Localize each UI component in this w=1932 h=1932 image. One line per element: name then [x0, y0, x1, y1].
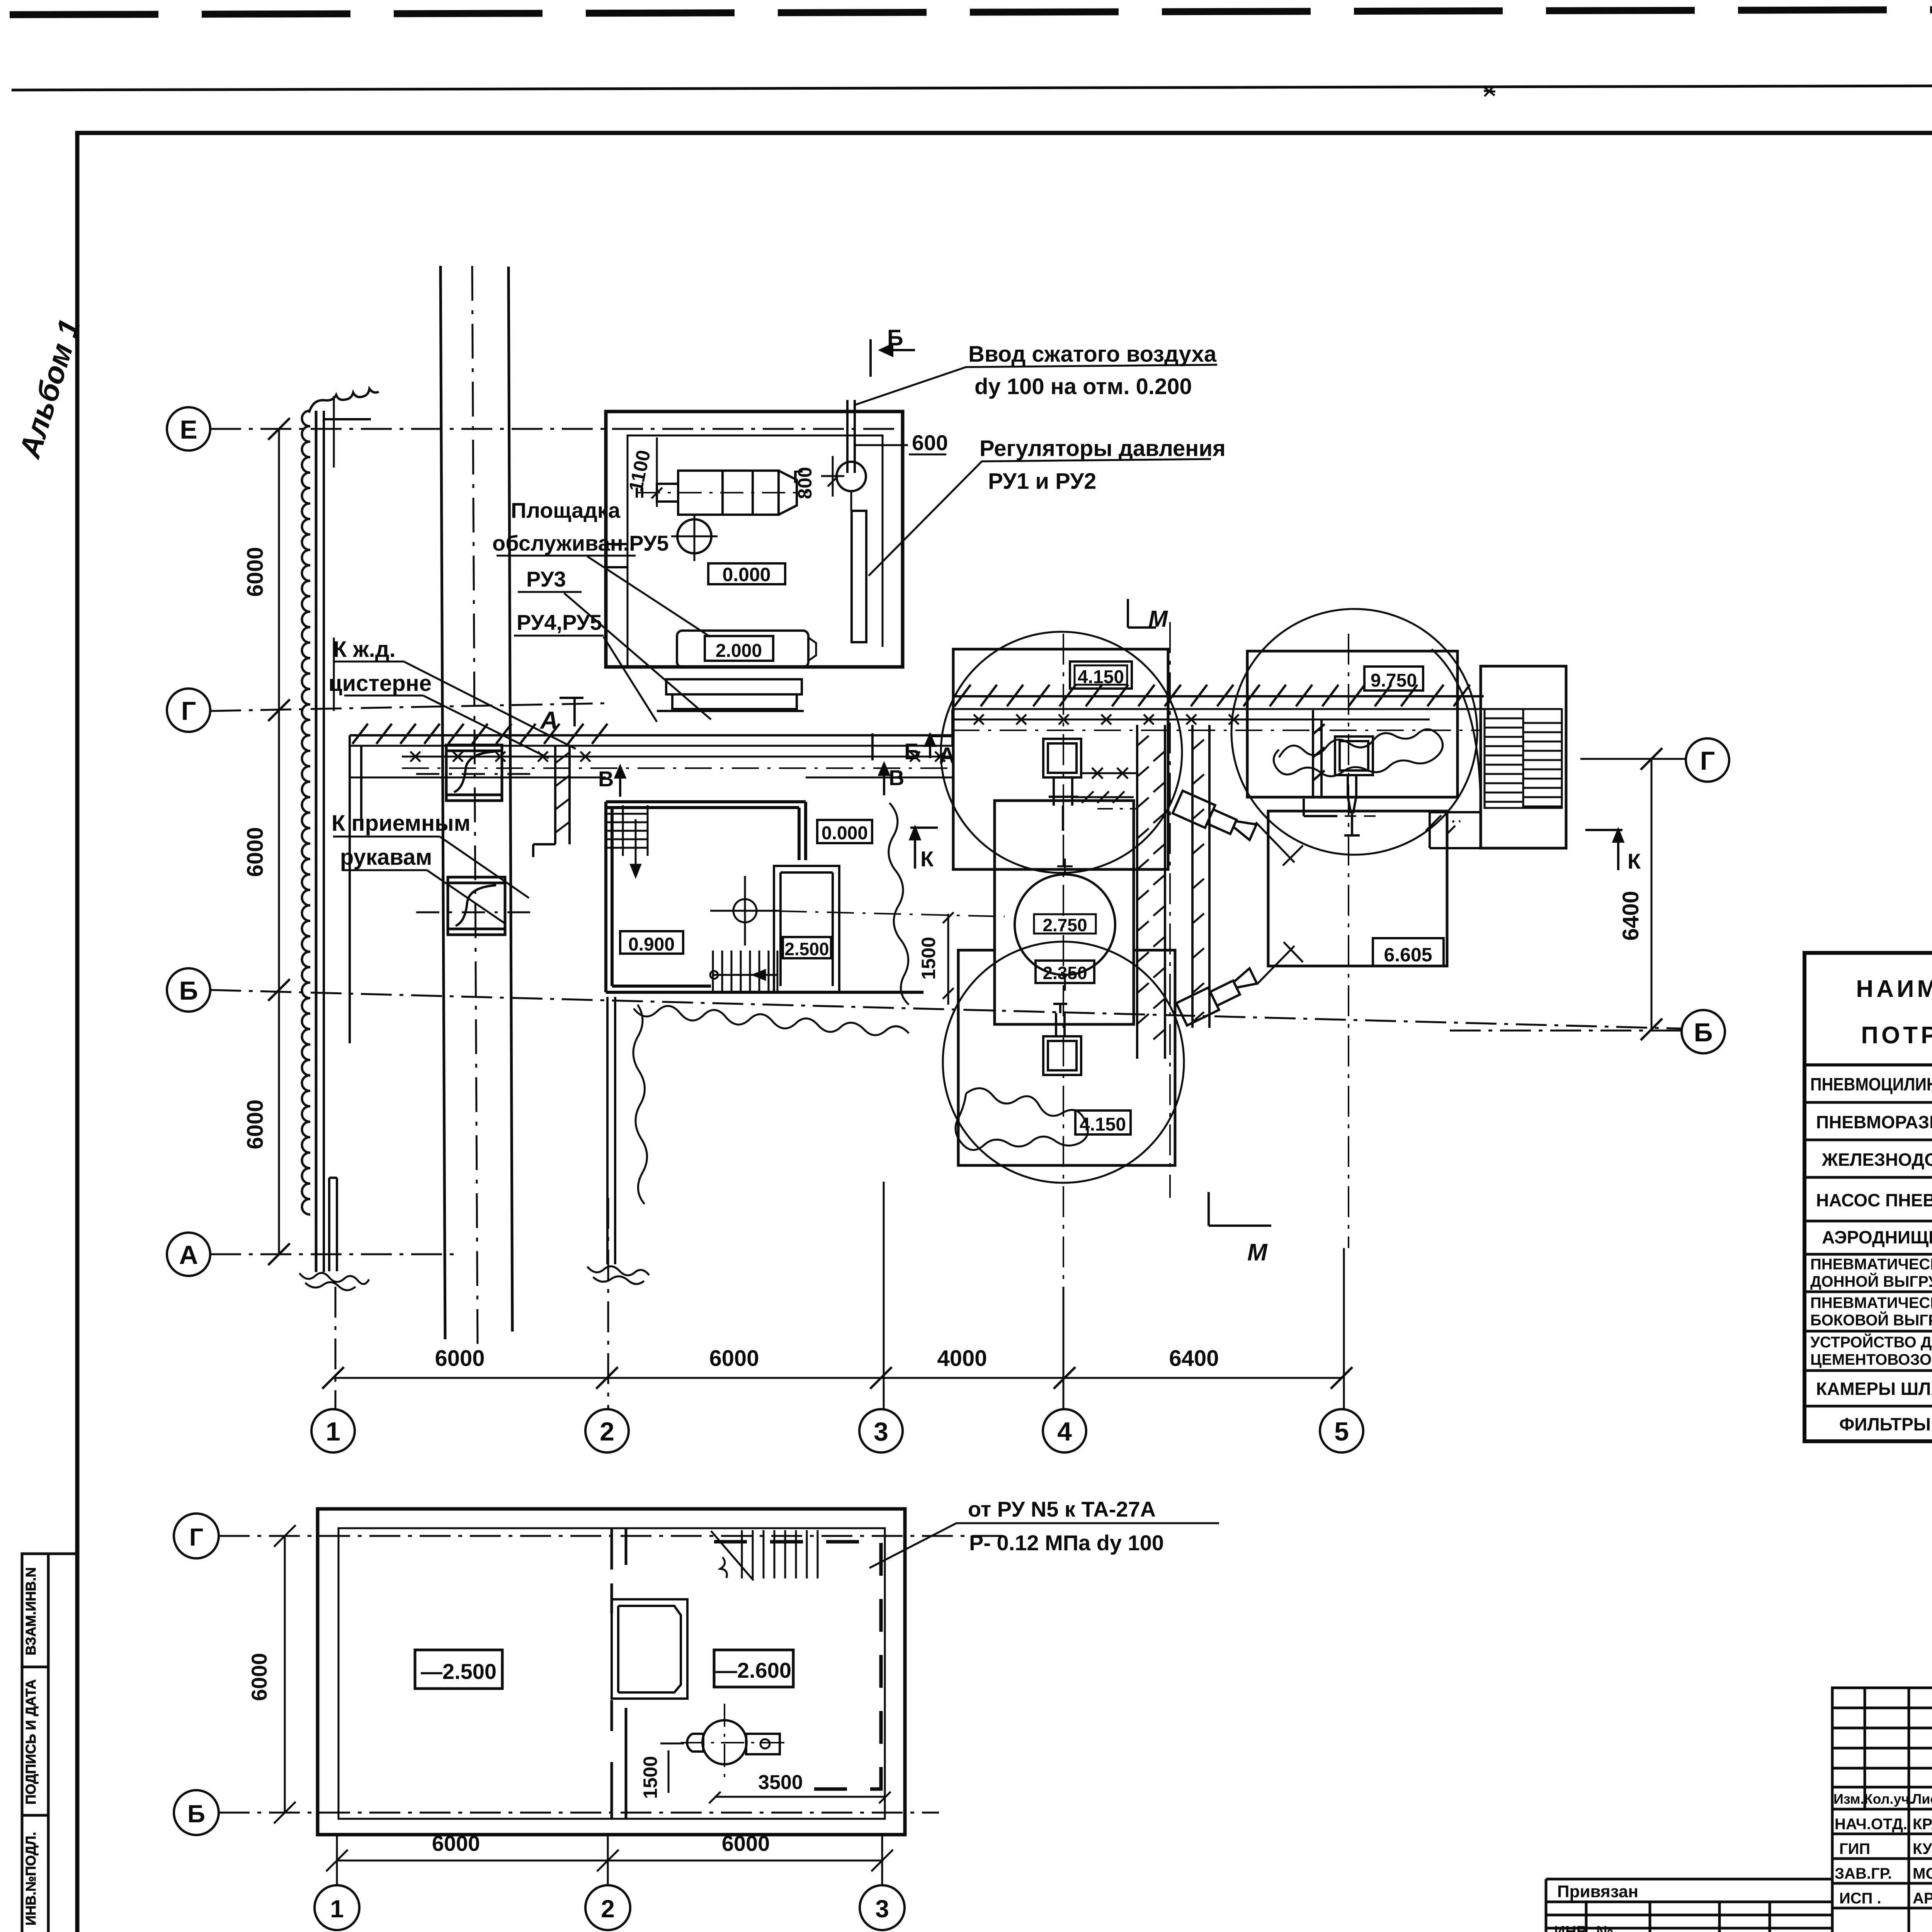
small plan axis G line	[219, 1535, 1005, 1537]
svg-text:ПНЕВМОЦИЛИНДРЫ ПРИЕМНОГО РУКАВ: ПНЕВМОЦИЛИНДРЫ ПРИЕМНОГО РУКАВА	[1810, 1074, 1932, 1094]
band dash-dot pipe	[952, 730, 1480, 731]
label 4.150 top	[1070, 662, 1132, 689]
trench wall lines	[315, 411, 318, 1272]
silo circle top	[941, 632, 1182, 873]
svg-text:2: 2	[601, 1895, 615, 1923]
revision grid	[1832, 1688, 1932, 1809]
corridor left leg	[350, 735, 361, 1043]
inlet flange circle	[837, 462, 866, 491]
scan artifact top dashed bars	[10, 8, 1932, 15]
column 4 dash-dot axis	[1063, 634, 1064, 1287]
svg-text:Изм.Кол.уч.: Изм.Кол.уч.	[1833, 1791, 1913, 1807]
svg-text:4000: 4000	[937, 1346, 987, 1371]
privyazan block	[1546, 1879, 1832, 1932]
label 9.750	[1364, 667, 1423, 690]
label -2.500	[415, 1650, 502, 1689]
section M mark top	[1128, 599, 1156, 628]
small plan column circles	[315, 1885, 359, 1930]
label -2.600	[714, 1650, 793, 1687]
corridor top line with hatch	[350, 734, 952, 736]
small plan inner wall	[338, 1528, 885, 1819]
silo circle bottom	[943, 942, 1184, 1183]
section K mark lower	[910, 828, 938, 869]
section M mark bottom	[1209, 1192, 1271, 1226]
column axis stubs to circles	[335, 1198, 608, 1409]
axis circle G right	[1686, 738, 1729, 782]
axis G dash-dot line	[210, 703, 607, 711]
hopper pit	[612, 1599, 687, 1699]
svg-text:6000: 6000	[432, 1831, 480, 1855]
dim slash ticks left	[268, 418, 290, 1265]
table header lines	[1804, 1005, 1932, 1065]
svg-text:АРУТЮНЯНЦ: АРУТЮНЯНЦ	[1913, 1890, 1932, 1907]
leader ot RU5	[869, 1523, 1219, 1568]
svg-text:6000: 6000	[247, 1653, 271, 1701]
table row lines	[1804, 1102, 1932, 1406]
svg-text:М: М	[1148, 606, 1168, 632]
svg-text:ГИП: ГИП	[1839, 1840, 1870, 1857]
lower building walls	[606, 802, 923, 992]
section M-M cut dash-dot	[1169, 622, 1171, 1198]
receiving box bottom axis	[416, 912, 530, 913]
bottom dim ticks	[322, 1367, 1352, 1389]
door swing arc	[1432, 649, 1481, 808]
svg-text:2.000: 2.000	[716, 641, 762, 661]
svg-text:Г: Г	[1700, 746, 1715, 776]
silo rect 4.150 bottom	[958, 950, 1175, 1165]
svg-text:—2.500: —2.500	[421, 1659, 497, 1684]
svg-text:К приемным: К приемным	[332, 811, 471, 836]
stairs upper left	[607, 805, 648, 876]
section V mark right	[879, 764, 889, 795]
svg-text:Привязан: Привязан	[1557, 1882, 1638, 1901]
svg-text:АЭРОДНИЩЕ: АЭРОДНИЩЕ	[1822, 1227, 1932, 1247]
axis B right dash-dot stub	[1449, 1030, 1682, 1032]
small plan column stubs	[337, 1835, 882, 1885]
svg-text:рукавам: рукавам	[340, 845, 432, 870]
section K mark right	[1585, 830, 1623, 870]
pump axis target	[733, 899, 757, 922]
svg-text:ЖЕЛЕЗНОДОРОЖНАЯ ЦИСТЕРНА: ЖЕЛЕЗНОДОРОЖНАЯ ЦИСТЕРНА	[1821, 1150, 1932, 1170]
svg-text:Р- 0.12 МПа dy 100: Р- 0.12 МПа dy 100	[969, 1531, 1164, 1555]
trench bottom tear wave	[299, 1273, 369, 1290]
svg-text:2: 2	[600, 1417, 614, 1446]
leader text ploshchadka	[492, 498, 669, 555]
staff rows grid	[1832, 1809, 1932, 1932]
filter unit top	[1043, 739, 1081, 831]
left vertical dimension line	[278, 429, 280, 1254]
leader text vvod szhatogo vozdukha	[968, 342, 1217, 399]
silo circle right	[1231, 609, 1477, 855]
bottom dimension chain line	[333, 1377, 1342, 1379]
lower left wavy line	[633, 1005, 647, 1204]
svg-text:ВЗАМ.ИНВ.N: ВЗАМ.ИНВ.N	[23, 1567, 39, 1655]
leader to rail tank	[404, 662, 576, 758]
receiving hopper box top	[446, 745, 502, 801]
axis circle G left	[167, 689, 210, 732]
section B mark bottom	[872, 733, 900, 760]
svg-text:600: 600	[912, 430, 948, 455]
louvre slats	[1485, 709, 1562, 808]
svg-text:3: 3	[875, 1895, 889, 1923]
svg-text:0.900: 0.900	[628, 934, 675, 955]
svg-text:2.350: 2.350	[1043, 963, 1087, 983]
axis A dash-dot line	[210, 1253, 458, 1255]
svg-text:ИНВ.№ПОДЛ.: ИНВ.№ПОДЛ.	[23, 1832, 39, 1925]
svg-text:Г: Г	[189, 1523, 203, 1551]
middle tank circle	[1015, 874, 1115, 975]
small plan axis B line	[219, 1812, 939, 1814]
filter unit right	[1335, 736, 1373, 835]
small plan middle wall	[612, 1529, 626, 1819]
elevation label 0.000	[708, 563, 785, 584]
cement blob right silo	[1274, 729, 1442, 776]
dim 1500 small plan	[660, 1743, 684, 1793]
svg-text:dy 100 на отм. 0.200: dy 100 на отм. 0.200	[975, 374, 1192, 399]
svg-text:НАИМЕНОВАНИЕ: НАИМЕНОВАНИЕ	[1856, 976, 1932, 1002]
svg-text:0.000: 0.000	[722, 564, 770, 585]
compressor centerline	[637, 492, 808, 493]
hatched line below filter	[1074, 791, 1134, 803]
column circle 5	[1320, 1409, 1363, 1452]
svg-text:6000: 6000	[243, 547, 268, 597]
svg-text:обслуживан.РУ5: обслуживан.РУ5	[492, 531, 669, 555]
svg-text:6000: 6000	[722, 1831, 770, 1855]
pump TA-27A	[702, 1720, 747, 1764]
dashed pipe route 0.12	[714, 1542, 881, 1789]
section V mark left	[616, 767, 625, 797]
left stamp column	[22, 1554, 77, 1932]
svg-text:2.500: 2.500	[784, 939, 829, 959]
loader device top	[1173, 791, 1257, 846]
small asterisk mark	[1484, 86, 1495, 96]
svg-text:6000: 6000	[243, 1099, 268, 1149]
svg-text:ЗАВ.ГР.: ЗАВ.ГР.	[1835, 1865, 1892, 1882]
silo rect 4.150 top	[953, 649, 1168, 869]
svg-text:9.750: 9.750	[1371, 670, 1417, 691]
basement stairs	[711, 1530, 818, 1580]
svg-text:УСТРОЙСТВО ДЛЯ ЗАГРУЗКИ АВТО-: УСТРОЙСТВО ДЛЯ ЗАГРУЗКИ АВТО-	[1810, 1333, 1932, 1351]
svg-text:ФИЛЬТРЫ: ФИЛЬТРЫ	[1839, 1414, 1931, 1434]
svg-text:КРАВЦОВ: КРАВЦОВ	[1913, 1816, 1932, 1833]
svg-text:6400: 6400	[1618, 891, 1643, 940]
trench scallop curls	[302, 411, 310, 1214]
section A mark left	[560, 698, 583, 726]
axis circle B left	[167, 968, 210, 1012]
small plan bottom dim chain	[326, 1850, 893, 1871]
compressor unit body	[637, 471, 797, 515]
label 2.350	[1036, 961, 1094, 983]
tick 6.605 corner	[1426, 815, 1441, 831]
small plan vertical dim	[274, 1525, 296, 1823]
louvre outer rect	[1481, 666, 1566, 848]
silo rect 9.750 right	[1247, 651, 1458, 797]
corridor second line	[350, 745, 952, 747]
label 6.605	[1373, 938, 1444, 966]
svg-text:0.000: 0.000	[821, 823, 868, 844]
rect 6.605	[1268, 811, 1447, 966]
scan artifact top thin line	[12, 84, 1932, 90]
svg-text:БОКОВОЙ ВЫГРУЗКИ ПБЛ-161: БОКОВОЙ ВЫГРУЗКИ ПБЛ-161	[1810, 1311, 1932, 1329]
band elbow duct into right silo	[1304, 710, 1337, 816]
platform slabs below building	[657, 679, 804, 711]
section A mark right	[925, 733, 954, 758]
svg-text:ПОДПИСЬ И ДАТА: ПОДПИСЬ И ДАТА	[23, 1679, 39, 1804]
svg-text:1: 1	[330, 1895, 344, 1923]
svg-text:от РУ N5 к ТА-27А: от РУ N5 к ТА-27А	[968, 1497, 1156, 1521]
svg-text:6000: 6000	[709, 1346, 759, 1371]
dim 3500	[709, 1792, 891, 1803]
svg-text:Б: Б	[1694, 1018, 1713, 1047]
elevation label 2.500	[783, 937, 831, 958]
svg-text:1500: 1500	[639, 1756, 661, 1799]
leader text regulyatory davleniya	[980, 436, 1226, 494]
axis circle E	[167, 407, 210, 451]
svg-text:РУ1 и РУ2: РУ1 и РУ2	[988, 469, 1096, 494]
svg-text:Е: Е	[180, 415, 197, 444]
receiving box top axis	[416, 773, 530, 775]
label to receiving sleeves	[332, 811, 471, 870]
annex small rect	[1430, 812, 1481, 848]
filter unit bottom	[1043, 1004, 1081, 1075]
svg-text:6000: 6000	[243, 827, 268, 877]
corridor elbow up to silo band	[951, 709, 954, 746]
column circle 2	[585, 1409, 629, 1452]
pump axis dashdot right	[780, 911, 1005, 917]
svg-text:РУ3: РУ3	[526, 567, 566, 591]
table outer border	[1804, 953, 1932, 1441]
rail line right	[509, 267, 512, 1332]
column 1 axis upper stub	[333, 396, 335, 711]
svg-text:1: 1	[326, 1417, 340, 1446]
axis E dash-dot line	[210, 428, 900, 430]
svg-text:4.150: 4.150	[1078, 667, 1124, 687]
building outer wall	[606, 412, 903, 667]
svg-text:В: В	[598, 767, 614, 791]
elevation label 0.000 lower	[817, 820, 872, 843]
svg-text:Б: Б	[187, 1800, 205, 1828]
small plan axis circle B	[174, 1790, 219, 1835]
column circle 1	[311, 1409, 355, 1452]
axis circle A left	[167, 1233, 210, 1276]
svg-text:К: К	[920, 847, 934, 871]
stairs bottom	[710, 951, 777, 992]
right vertical dim 6400	[1651, 759, 1653, 1029]
axis G right line	[1580, 758, 1686, 760]
svg-text:5: 5	[1334, 1417, 1349, 1446]
svg-text:6000: 6000	[435, 1346, 485, 1371]
platform 2.000	[677, 631, 808, 667]
svg-text:Площадка: Площадка	[511, 498, 621, 522]
svg-text:А: А	[179, 1240, 198, 1270]
label to railway tank	[328, 637, 432, 696]
gallery vertical lines 1	[1137, 725, 1165, 1059]
svg-text:М: М	[1247, 1239, 1268, 1266]
lower left wall tear	[587, 1266, 649, 1284]
axis circle B right	[1682, 1010, 1725, 1053]
revision header labels	[1833, 1791, 1932, 1807]
svg-text:2.750: 2.750	[1043, 915, 1087, 935]
air inlet pipe	[847, 400, 855, 473]
corridor dash-dot pipe	[402, 767, 952, 769]
svg-text:Б: Б	[179, 976, 198, 1005]
loader device bottom	[1176, 968, 1260, 1026]
axis letters	[179, 415, 1715, 1446]
column circle 3	[859, 1409, 903, 1452]
svg-text:ПНЕВМАТИЧЕСКИЙ РАЗГРУЖАТЕЛЬ: ПНЕВМАТИЧЕСКИЙ РАЗГРУЖАТЕЛЬ	[1810, 1294, 1932, 1311]
svg-text:—2.600: —2.600	[716, 1658, 791, 1682]
track centerline dash-dot	[472, 266, 478, 1349]
svg-text:Ввод сжатого воздуха: Ввод сжатого воздуха	[968, 342, 1217, 367]
svg-text:ЦЕМЕНТОВОЗОВ: ЦЕМЕНТОВОЗОВ	[1810, 1351, 1932, 1368]
label 4.150 bottom	[1075, 1111, 1131, 1134]
band pipe with valves	[952, 719, 1430, 721]
room 2.500	[774, 866, 839, 992]
svg-text:Г: Г	[793, 467, 803, 487]
lower left wall line down	[607, 997, 615, 1264]
west wall partition stubs	[606, 544, 628, 567]
compressor flywheel circle	[677, 519, 711, 553]
svg-text:ПОТРЕБИТЕЛЕЙ: ПОТРЕБИТЕЛЕЙ	[1861, 1022, 1932, 1049]
trench top curl	[309, 389, 379, 419]
svg-text:КАМЕРЫ ШЛАНГОВОГО ЗАТВОРА: КАМЕРЫ ШЛАНГОВОГО ЗАТВОРА	[1816, 1379, 1932, 1399]
svg-text:К ж.д.: К ж.д.	[333, 637, 396, 662]
svg-text:6.605: 6.605	[1384, 944, 1432, 966]
rail line left	[440, 266, 445, 1339]
svg-text:цистерне: цистерне	[328, 671, 432, 696]
ground wavy under building	[634, 1006, 909, 1035]
gallery vertical lines 2	[1192, 725, 1209, 1028]
svg-text:6400: 6400	[1169, 1346, 1219, 1371]
svg-text:3500: 3500	[758, 1771, 803, 1794]
svg-text:ДОННОЙ ВЫГРУЗКИ ПДД- 101: ДОННОЙ ВЫГРУЗКИ ПДД- 101	[1810, 1272, 1932, 1290]
svg-text:Лист: Лист	[1912, 1791, 1932, 1807]
trench inner step line	[329, 1178, 337, 1271]
svg-text:КУЗНЕЦОВ: КУЗНЕЦОВ	[1913, 1840, 1932, 1857]
middle tank room rect	[995, 801, 1134, 1024]
svg-text:ПНЕВМАТИЧЕСКИЙ РАЗГРУЖАТЕЛЬ: ПНЕВМАТИЧЕСКИЙ РАЗГРУЖАТЕЛЬ	[1810, 1255, 1932, 1273]
small plan outer wall	[318, 1509, 905, 1835]
cement blob bottom silo	[956, 1088, 1088, 1150]
small plan axis circle G	[174, 1514, 219, 1558]
pressure regulators RU1 RU2	[852, 511, 866, 642]
svg-text:Г: Г	[181, 696, 196, 726]
receiving hopper box bottom	[448, 877, 505, 935]
corridor bottom line	[350, 777, 952, 779]
svg-text:НАСОС ПНЕВМАТИЧЕСКИЙ ТА-14Б: НАСОС ПНЕВМАТИЧЕСКИЙ ТА-14Б	[1816, 1190, 1932, 1210]
dim 600 tick	[855, 444, 908, 446]
leader to receiving sleeve	[427, 837, 529, 923]
column circle 4	[1043, 1409, 1086, 1452]
svg-text:3: 3	[874, 1417, 888, 1446]
label 2.750	[1034, 914, 1096, 934]
top hatched pipe band	[952, 695, 1484, 697]
dim 1500	[943, 912, 954, 1005]
svg-text:1500: 1500	[918, 937, 939, 980]
header name column	[1856, 976, 1932, 1049]
section B mark top	[871, 339, 915, 377]
svg-text:ИСП .: ИСП .	[1839, 1890, 1881, 1907]
svg-text:Б: Б	[887, 325, 903, 350]
svg-text:Регуляторы давления: Регуляторы давления	[980, 436, 1226, 461]
building inner wall	[628, 435, 883, 667]
table data rows	[1810, 1074, 1932, 1434]
leaders to platform	[564, 556, 711, 722]
svg-text:К: К	[1628, 849, 1641, 873]
svg-text:ПНЕВМОРАЗГРУЗЧИК ТА-27А: ПНЕВМОРАЗГРУЗЧИК ТА-27А	[1816, 1112, 1932, 1132]
corridor pipe with valves	[402, 756, 952, 758]
column 5 dash-dot axis	[1348, 634, 1349, 1248]
svg-text:НАЧ.ОТД.: НАЧ.ОТД.	[1835, 1816, 1907, 1833]
svg-text:4: 4	[1057, 1417, 1072, 1446]
K-K cut wavy line	[889, 803, 909, 1005]
elevation label 0.900	[620, 931, 683, 954]
svg-text:МОЛОТКОВА: МОЛОТКОВА	[1913, 1865, 1932, 1882]
svg-text:ИНВ. №: ИНВ. №	[1554, 1923, 1613, 1932]
staff names	[1835, 1816, 1932, 1907]
hatched duct down from corridor	[533, 746, 570, 857]
filter side pipe with valves	[1081, 768, 1137, 779]
axis B dash-dot line	[210, 990, 1682, 1029]
